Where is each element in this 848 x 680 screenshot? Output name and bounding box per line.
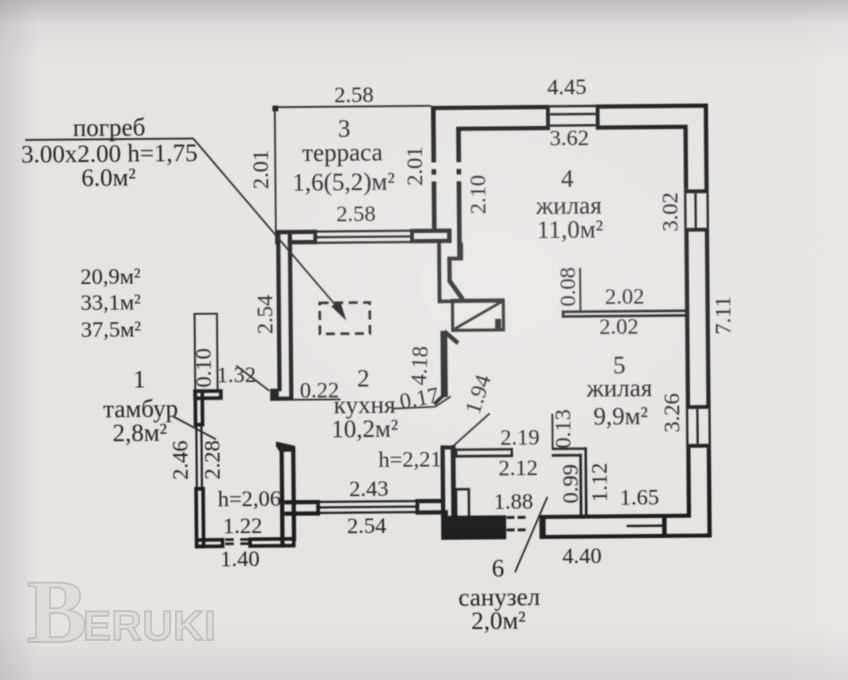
partition corner outer line xyxy=(584,447,587,517)
terrace top line xyxy=(275,105,431,108)
svg-text:1.40: 1.40 xyxy=(220,546,260,571)
cellar dashed rectangle xyxy=(320,302,370,333)
partition 2.02 left cap xyxy=(562,311,565,318)
bottom wall inner face right segment xyxy=(667,514,692,518)
svg-text:37,5м²: 37,5м² xyxy=(81,316,142,342)
right wall window2 bottom sill xyxy=(686,444,711,448)
partition 2.19 line b xyxy=(455,454,513,457)
tambour south wall right xyxy=(250,539,294,546)
top wall inner face right segment xyxy=(596,125,687,130)
terrace-room4 wall outer face lower xyxy=(432,187,437,231)
top wall window right jamb xyxy=(596,104,600,129)
svg-text:2.01: 2.01 xyxy=(402,146,427,186)
svg-text:1.12: 1.12 xyxy=(587,463,612,503)
svg-text:2.12: 2.12 xyxy=(498,455,538,480)
svg-text:10,2м²: 10,2м² xyxy=(331,416,398,444)
kitchen north window bottom line xyxy=(317,241,410,244)
tambour door dash b1 xyxy=(225,542,234,545)
kitchen north wall inner face left xyxy=(288,240,317,244)
svg-text:1,6(5,2)м²: 1,6(5,2)м² xyxy=(292,169,395,197)
terrace-room4 door dashes outer face xyxy=(431,157,436,187)
right wall window1 bottom sill xyxy=(684,228,709,232)
terrace-room4 wall inner face upper xyxy=(456,127,461,157)
svg-text:0.08: 0.08 xyxy=(555,267,580,307)
hall west wall chamfer xyxy=(449,280,463,300)
svg-text:жилая: жилая xyxy=(585,375,652,403)
svg-text:1.22: 1.22 xyxy=(223,513,263,538)
svg-text:2.19: 2.19 xyxy=(500,424,540,449)
kitchen north window left jamb xyxy=(313,230,317,244)
right wall window1 middle line xyxy=(694,193,697,228)
svg-text:2.43: 2.43 xyxy=(349,476,389,501)
bottom wall outer face right segment xyxy=(667,533,712,537)
tambour window line b xyxy=(200,426,203,487)
right wall inner face seg3 xyxy=(686,448,691,515)
top wall window outer line xyxy=(550,105,596,108)
kitchen south window left jamb xyxy=(316,500,320,516)
kitchen east wall foot diagonal xyxy=(434,396,443,404)
kitchen south wall outer face left xyxy=(284,511,320,516)
top wall window left jamb xyxy=(546,105,550,130)
kitchen north window top line xyxy=(317,230,410,233)
svg-text:1.88: 1.88 xyxy=(494,489,534,514)
svg-text:терраса: терраса xyxy=(302,139,383,167)
svg-text:3.62: 3.62 xyxy=(549,125,589,150)
kitchen north window mid line xyxy=(317,235,410,238)
kitchen west wall inner face upper xyxy=(288,232,294,397)
sanuzel west wall right face xyxy=(451,445,456,516)
kitchen west wall lower inner face xyxy=(291,446,296,541)
sanuzel west wall left face xyxy=(440,446,445,540)
svg-text:0.13: 0.13 xyxy=(550,409,575,449)
partition 2.19 left cap xyxy=(455,449,457,458)
right wall window1 top sill xyxy=(684,189,709,193)
hall west wall left face xyxy=(437,243,441,303)
kitchen west wall lower outer face xyxy=(280,446,285,547)
svg-text:2.28: 2.28 xyxy=(199,440,224,480)
svg-text:2.54: 2.54 xyxy=(347,513,387,538)
tambour door dash b2 xyxy=(240,542,249,545)
hall west wall inner face xyxy=(447,257,452,281)
bottom wall window middle line xyxy=(627,525,663,528)
partition 2.02 top line xyxy=(562,310,686,314)
svg-text:1: 1 xyxy=(133,366,146,393)
partition 2.19 right cap xyxy=(511,448,513,457)
svg-text:погреб: погреб xyxy=(73,115,146,143)
tambour window line a xyxy=(195,426,198,487)
dim 0.13 extension line xyxy=(551,414,553,449)
svg-text:1.94: 1.94 xyxy=(460,372,496,417)
top wall window middle line xyxy=(550,113,596,116)
right wall outer face seg3 xyxy=(707,448,712,538)
bottom wall solid segment below sanuzel xyxy=(443,515,506,540)
sanuzel door leaf rectangle xyxy=(456,489,469,518)
svg-text:2.01: 2.01 xyxy=(248,150,273,190)
svg-text:0.99: 0.99 xyxy=(558,464,583,504)
kitchen-bottom wall connector xyxy=(443,510,448,540)
svg-text:1.32: 1.32 xyxy=(216,362,256,387)
partition right piece line b xyxy=(552,454,582,457)
kitchen west wall lower chamfer cap xyxy=(276,441,295,451)
svg-text:4: 4 xyxy=(561,166,574,193)
svg-text:h=2,21: h=2,21 xyxy=(378,446,442,472)
svg-text:2,8м²: 2,8м² xyxy=(112,420,167,447)
svg-text:3.26: 3.26 xyxy=(659,393,684,433)
tambour shaft left thin line xyxy=(194,313,196,390)
bottom wall door dash a1 xyxy=(507,516,515,519)
svg-text:2: 2 xyxy=(357,365,370,392)
dim 0.17 line xyxy=(392,396,450,408)
door D1 lower splay xyxy=(444,331,458,343)
kitchen north wall inner face right xyxy=(414,239,452,244)
kitchen south wall inner face left xyxy=(284,500,320,505)
bottom wall inner face mid segment xyxy=(546,514,663,519)
terrace-room4 door dashes inner face xyxy=(456,157,461,187)
tambour shaft top thin line xyxy=(194,313,218,315)
svg-text:6.0м²: 6.0м² xyxy=(81,165,136,192)
kitchen north wall west jamb xyxy=(275,230,280,244)
tambour door dash a2 xyxy=(240,538,249,541)
kitchen north wall outer face left xyxy=(275,230,317,235)
right wall outer face seg1 xyxy=(704,104,709,192)
right wall window2 inner line xyxy=(686,409,689,444)
room6 label leader xyxy=(514,497,548,572)
pogreb leader arrowhead xyxy=(331,301,346,321)
partition 2.02 extension line xyxy=(579,268,581,311)
tambour west wall upper xyxy=(195,391,202,425)
door D1 leaf diagonal xyxy=(455,302,502,329)
svg-text:11,0м²: 11,0м² xyxy=(537,216,603,244)
svg-text:2.54: 2.54 xyxy=(252,295,277,335)
door D1 frame top xyxy=(438,299,505,303)
bottom wall window jamb xyxy=(662,514,667,538)
right wall window1 inner line xyxy=(684,193,687,228)
top wall inner face left segment xyxy=(456,126,550,131)
svg-text:33,1м²: 33,1м² xyxy=(80,289,141,315)
partition 2.02 bottom line xyxy=(562,314,686,318)
right wall window2 middle line xyxy=(696,409,699,444)
kitchen south wall outer face right xyxy=(419,510,448,514)
watermark Beruki xyxy=(27,568,267,663)
svg-text:0.22: 0.22 xyxy=(300,377,340,402)
bottom wall door dash b1 xyxy=(507,529,515,532)
terrace-room4 wall outer face upper xyxy=(431,106,436,157)
tambour shaft right thin line xyxy=(216,313,218,390)
right wall window1 outer line xyxy=(706,193,709,228)
svg-text:2.10: 2.10 xyxy=(465,175,490,215)
partition right piece line a xyxy=(552,447,587,450)
svg-text:2.02: 2.02 xyxy=(599,314,639,339)
svg-text:2.02: 2.02 xyxy=(605,284,645,309)
svg-text:2,0м²: 2,0м² xyxy=(471,608,526,635)
svg-text:20,9м²: 20,9м² xyxy=(80,263,141,289)
kitchen south wall inner face right xyxy=(419,499,445,503)
right wall window2 top sill xyxy=(686,405,711,409)
kitchen south window right jamb xyxy=(415,499,419,515)
bottom wall window left end xyxy=(625,514,628,518)
svg-text:2.58: 2.58 xyxy=(334,82,374,107)
tambour south wall left xyxy=(197,540,223,547)
tambour door dash a1 xyxy=(225,538,234,541)
bottom wall door dash b2 xyxy=(518,528,526,531)
svg-text:7.11: 7.11 xyxy=(710,296,735,335)
pogreb leader horizontal xyxy=(25,139,193,140)
svg-text:3.02: 3.02 xyxy=(657,192,682,232)
right wall inner face seg1 xyxy=(683,125,688,190)
svg-text:1.65: 1.65 xyxy=(620,484,660,509)
door D1 stop block xyxy=(495,319,501,329)
terrace-room4 wall inner face lower xyxy=(457,187,462,260)
top wall outer face right segment xyxy=(598,104,707,109)
pogreb leader diagonal xyxy=(193,137,337,309)
terrace left line xyxy=(274,106,277,231)
partition 2.19 line a xyxy=(455,448,513,451)
svg-text:4.18: 4.18 xyxy=(406,345,433,385)
svg-text:2.46: 2.46 xyxy=(167,440,192,480)
hall west wall notch vertical xyxy=(459,243,463,257)
tambour west wall lower xyxy=(196,489,204,547)
svg-text:h=2,06: h=2,06 xyxy=(218,486,282,512)
right wall window2 outer line xyxy=(708,409,711,444)
kitchen north wall outer face right xyxy=(414,229,449,234)
dim 1.94 leader xyxy=(453,413,490,446)
kitchen west wall foot xyxy=(270,389,279,398)
svg-text:9,9м²: 9,9м² xyxy=(593,403,648,430)
kitchen east wall below door xyxy=(440,331,447,397)
bottom wall door right jamb xyxy=(539,515,545,539)
kitchen north wall right jamb xyxy=(447,229,452,243)
svg-text:0.17: 0.17 xyxy=(398,382,441,414)
door D1 frame xyxy=(452,300,503,330)
tambour label leader xyxy=(174,416,216,439)
svg-text:2.58: 2.58 xyxy=(336,201,376,226)
hall west wall notch horizontal xyxy=(447,257,463,261)
svg-text:0.10: 0.10 xyxy=(191,348,216,388)
dim 1.32 leader xyxy=(236,365,269,391)
right wall outer face seg2 xyxy=(705,232,711,406)
sanuzel west wall top cap xyxy=(440,445,455,449)
bottom wall door dash a2 xyxy=(518,516,526,519)
kitchen south window top line xyxy=(320,500,416,503)
partition corner inner line xyxy=(579,454,582,518)
right wall inner face seg2 xyxy=(684,232,690,406)
bottom wall outer face mid segment xyxy=(546,534,667,539)
dim 0.22 line xyxy=(290,398,341,400)
kitchen west wall outer face upper xyxy=(276,232,282,391)
terrace corner dot xyxy=(272,106,278,112)
kitchen south window mid line xyxy=(320,505,416,508)
svg-text:4.45: 4.45 xyxy=(547,74,587,99)
kitchen north window right jamb xyxy=(410,229,414,243)
svg-text:6: 6 xyxy=(492,555,505,582)
kitchen south window bottom line xyxy=(320,511,416,514)
top wall outer face left segment xyxy=(431,105,548,110)
top wall window inner line xyxy=(550,124,596,127)
kitchen west wall bottom cap xyxy=(270,397,293,401)
tambour north wall xyxy=(195,391,221,398)
svg-text:4.40: 4.40 xyxy=(562,543,602,568)
